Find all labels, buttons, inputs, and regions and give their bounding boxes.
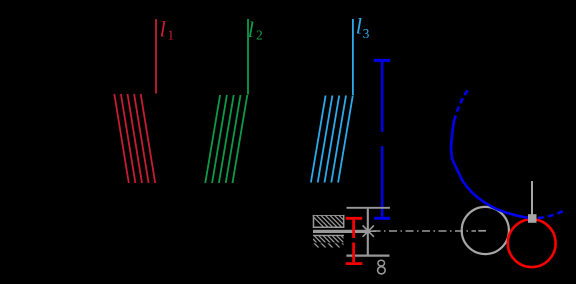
pendulum 3 swing fan (5 strings), light blue	[311, 96, 353, 183]
blue trajectory arc, dashed upper part	[456, 91, 468, 115]
blue trajectory arc, dashed lower-right part	[538, 210, 565, 218]
connecting rod (gray line)	[531, 181, 533, 215]
shaft bar through wall slot	[313, 230, 366, 233]
red wheel (circle)	[508, 219, 556, 267]
center tick at gray wheel center	[478, 230, 486, 232]
svg-text:2: 2	[256, 28, 263, 43]
wall hatched block, bottom part	[306, 232, 356, 250]
pendulum 3 string (rest position), light blue	[352, 19, 354, 95]
svg-text:1: 1	[167, 27, 174, 42]
blue trajectory arc, solid middle part	[451, 116, 529, 218]
svg-text:l: l	[248, 17, 254, 42]
axle center dot	[366, 229, 370, 233]
gray wheel (circle)	[462, 207, 509, 254]
pendulum 2 swing fan (5 strings), green	[205, 95, 247, 183]
crank frame vertical	[367, 209, 369, 255]
dash-dot centerline to wheel center	[373, 230, 477, 232]
svg-text:l: l	[356, 14, 362, 39]
pendulum 1 swing fan (5 strings), red	[114, 94, 155, 183]
crank frame bottom bar	[346, 255, 389, 257]
amplitude marker (red dimension with end bars)	[346, 218, 363, 263]
dimension line for l3 length, dark blue	[374, 60, 390, 218]
slider block (gray square)	[528, 214, 537, 223]
pendulum 1 string (rest position), red	[155, 19, 157, 93]
svg-text:l: l	[160, 17, 166, 42]
value label 8 (drawn as two rings)	[378, 260, 386, 274]
crank frame top bar	[347, 207, 390, 209]
svg-text:3: 3	[363, 26, 370, 41]
wall hatched block, top part	[309, 212, 359, 230]
axle cross mark	[361, 225, 377, 236]
pendulum 2 string (rest position), green	[247, 19, 249, 95]
